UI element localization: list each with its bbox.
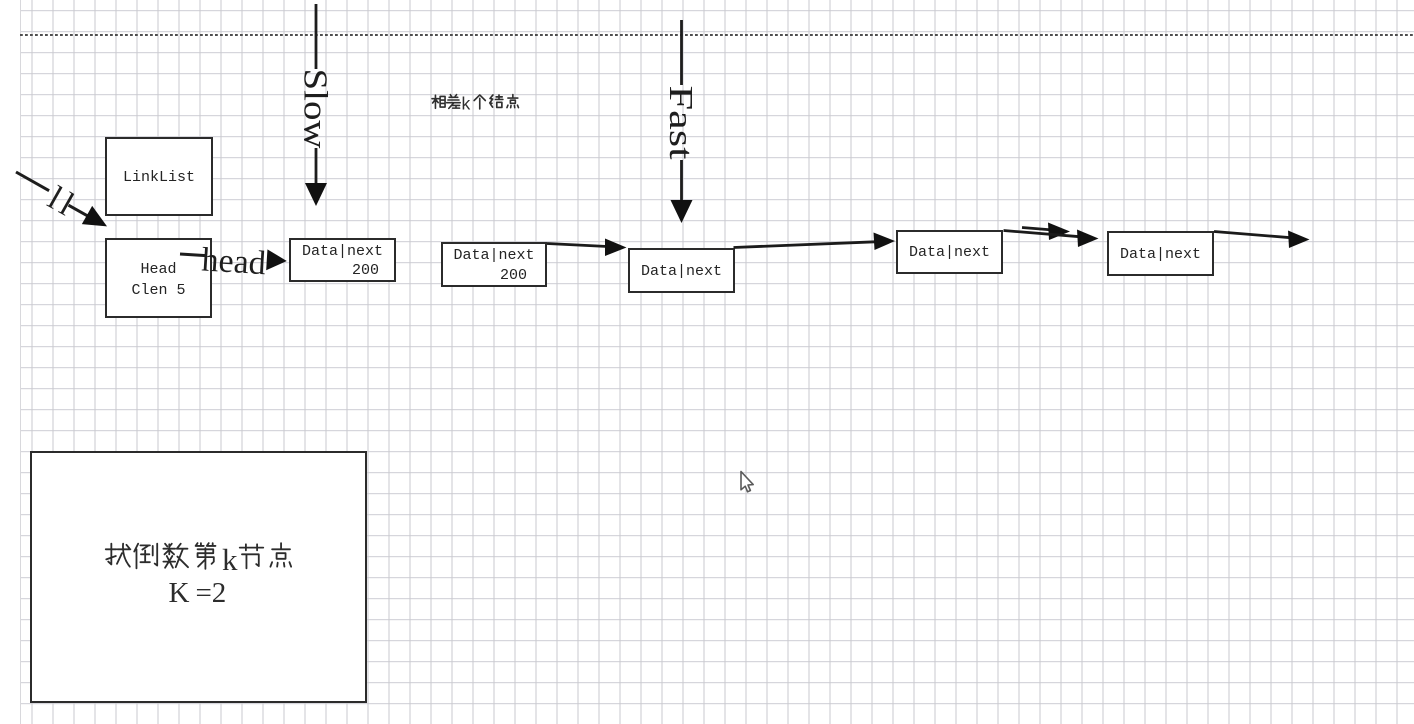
svg-text:K=2: K=2: [169, 577, 227, 609]
svg-text:Slow: Slow: [297, 69, 334, 149]
svg-text:k: k: [222, 542, 238, 577]
svg-text:ll: ll: [42, 180, 84, 225]
svg-text:head: head: [201, 241, 267, 282]
svg-text:k: k: [462, 94, 471, 114]
svg-text:Fast: Fast: [662, 86, 699, 161]
